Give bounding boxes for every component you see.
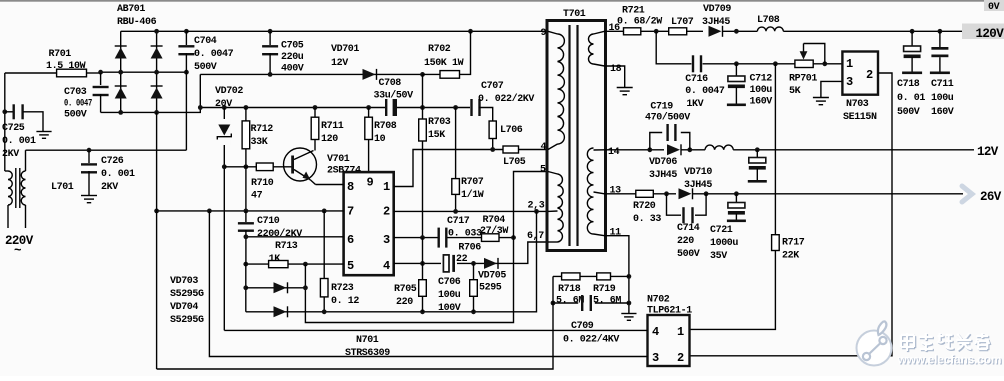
svg-text:6,7: 6,7 xyxy=(527,231,544,242)
inductor L707 xyxy=(669,28,687,35)
ground for C725 xyxy=(36,131,51,133)
wire opto pin4 from VD702 column xyxy=(224,329,647,331)
node L706 bottom on pin1 wire xyxy=(490,147,495,152)
node C705 top xyxy=(268,29,273,34)
capacitor C704 xyxy=(185,31,187,45)
svg-text:5. 6M: 5. 6M xyxy=(593,295,621,306)
wire AC left vertical xyxy=(4,73,6,171)
svg-text:2: 2 xyxy=(383,205,390,219)
nodes C719 ends xyxy=(647,147,692,152)
resistor R721 xyxy=(624,28,641,35)
svg-text:VD710: VD710 xyxy=(684,167,712,178)
wire primary negative column xyxy=(156,112,158,369)
resistor R710 xyxy=(224,166,292,168)
resistor R719 xyxy=(597,273,611,280)
svg-text:VD702: VD702 xyxy=(215,86,243,97)
svg-text:VD704: VD704 xyxy=(170,302,198,313)
zener diode VD702 xyxy=(218,119,231,145)
svg-text:35V: 35V xyxy=(710,251,727,262)
resistor R702 xyxy=(423,31,471,74)
svg-text:0. 0047: 0. 0047 xyxy=(194,49,234,60)
svg-text:R704: R704 xyxy=(483,215,506,226)
resistor R718 xyxy=(553,275,629,277)
wire IC pin 5 net xyxy=(246,263,344,265)
wire opto pin3 from pin7 net xyxy=(209,211,647,357)
svg-text:47: 47 xyxy=(251,191,263,202)
capacitor C712 xyxy=(735,64,737,76)
junctions on bottom rail xyxy=(118,110,159,115)
svg-text:26V: 26V xyxy=(980,190,1002,204)
wire aux rail left part xyxy=(200,107,385,109)
svg-text:R719: R719 xyxy=(593,284,616,295)
svg-text:120V: 120V xyxy=(976,27,1004,41)
wire AC1 rail xyxy=(101,71,187,73)
capacitor C721 xyxy=(735,194,737,203)
wire C707 to L706 xyxy=(479,108,493,122)
svg-text:C725: C725 xyxy=(2,123,25,134)
resistor R707 xyxy=(455,108,457,212)
svg-text:500V: 500V xyxy=(897,107,920,118)
op-amp U2 regulator N703 SE115N box xyxy=(842,52,878,95)
resistor R712 xyxy=(245,108,247,211)
node R706 top xyxy=(471,261,476,266)
svg-text:T701: T701 xyxy=(563,9,586,20)
resistor R711 xyxy=(314,108,316,151)
capacitor C718 xyxy=(911,31,913,46)
svg-text:R701: R701 xyxy=(49,49,72,60)
decor grey corner xyxy=(0,0,1004,2)
svg-text:7: 7 xyxy=(347,205,354,219)
junctions on aux rail xyxy=(198,105,458,110)
svg-text:2: 2 xyxy=(677,351,684,365)
node C714 right and C721 top xyxy=(704,191,739,196)
svg-text:R706: R706 xyxy=(458,243,481,254)
svg-text:0. 001: 0. 001 xyxy=(101,169,135,180)
node VD702 bottom on R710 wire xyxy=(222,164,227,169)
svg-text:4: 4 xyxy=(652,325,659,339)
ground for N703 pin3 xyxy=(813,97,829,99)
node C716 branch xyxy=(654,29,659,34)
diode bridge upper-left xyxy=(115,48,127,59)
transformer T701 core box xyxy=(547,21,606,251)
svg-text:L707: L707 xyxy=(671,17,694,28)
svg-text:R723: R723 xyxy=(331,283,354,294)
inductor L709 filter coil xyxy=(705,145,733,150)
svg-text:500V: 500V xyxy=(677,249,700,260)
svg-text:100u: 100u xyxy=(931,93,954,104)
node R704 right to pin5 branch xyxy=(511,235,516,240)
wire IC pin 3 snubber left xyxy=(394,237,438,239)
wire aux rail right part xyxy=(395,107,470,109)
arrow 26V output xyxy=(962,186,972,202)
svg-text:C717: C717 xyxy=(447,216,470,227)
svg-text:500V: 500V xyxy=(64,110,87,121)
svg-text:2,3: 2,3 xyxy=(528,200,545,211)
diode VD706 xyxy=(667,144,680,155)
svg-text:L701: L701 xyxy=(51,182,74,193)
nodes C718 C711 top xyxy=(910,29,943,34)
wire AC line top to R701 xyxy=(5,72,57,74)
ground for pin 18 xyxy=(617,87,633,89)
svg-text:C705: C705 xyxy=(281,41,304,52)
svg-text:C712: C712 xyxy=(750,74,773,85)
svg-text:L708: L708 xyxy=(757,15,780,26)
capacitor C714 xyxy=(667,194,682,215)
wire pin13 26V rail xyxy=(605,193,636,195)
wire pin5 to snubber link xyxy=(305,172,548,323)
svg-text:R705: R705 xyxy=(394,284,417,295)
transistor V701 2SB774 xyxy=(284,148,317,181)
svg-text:RP701: RP701 xyxy=(789,74,817,85)
wire L708 to 120V output xyxy=(783,30,974,32)
node R705 top xyxy=(420,261,425,266)
svg-text:160V: 160V xyxy=(750,97,773,108)
svg-text:27/3W: 27/3W xyxy=(480,225,508,237)
svg-text:VD709: VD709 xyxy=(703,4,731,15)
junctions on pin7 wire xyxy=(154,209,326,214)
resistor R713 xyxy=(269,261,288,268)
capacitor C709 xyxy=(553,302,578,304)
resistor R717 xyxy=(774,64,776,235)
svg-text:9: 9 xyxy=(367,176,374,190)
diode bridge lower-right xyxy=(151,88,163,99)
diode VD703 xyxy=(246,287,306,289)
node C725 left junction xyxy=(2,109,7,114)
svg-text:100u: 100u xyxy=(438,290,461,301)
svg-text:6: 6 xyxy=(347,233,354,247)
wire bridge bottom rail xyxy=(101,74,201,112)
diode VD704 xyxy=(246,211,537,311)
node VD703 cathode junction xyxy=(303,285,308,290)
wire IC pin 8 to V701 emitter xyxy=(316,184,344,186)
wire L707 to VD709 xyxy=(687,30,703,32)
diode bridge lower-left xyxy=(115,88,127,99)
node R703 bottom on pin3 wire xyxy=(420,235,425,240)
capacitor C713 filter xyxy=(756,150,758,158)
svg-text:R710: R710 xyxy=(251,178,274,189)
svg-text:4: 4 xyxy=(383,259,390,273)
wire C716 branch xyxy=(656,31,691,64)
svg-text:SE115N: SE115N xyxy=(843,112,877,123)
opto-coupler N702 TLP621-1 box xyxy=(648,315,690,366)
wire IC pin 7 ground net xyxy=(157,210,344,212)
svg-text:14: 14 xyxy=(608,147,620,158)
node C705 bottom xyxy=(268,72,273,77)
node VD703 anode xyxy=(243,285,248,290)
diode VD705 xyxy=(484,258,497,269)
svg-text:2200/2KV: 2200/2KV xyxy=(257,228,302,240)
transformer primary winding 5-2,3-6,7 xyxy=(558,174,564,242)
svg-text:R721: R721 xyxy=(622,6,645,17)
node C714 left xyxy=(664,191,669,196)
svg-text:2KV: 2KV xyxy=(101,182,118,193)
svg-text:R717: R717 xyxy=(782,238,805,249)
resistor R705 xyxy=(422,238,424,312)
wire IC pin 3 snubber right xyxy=(447,237,514,239)
wire VD709 to L708 xyxy=(723,30,758,32)
svg-text:0. 022/2KV: 0. 022/2KV xyxy=(478,93,534,105)
wire IC pin 1 to transformer pin 4 xyxy=(394,150,548,187)
node R707 bottom xyxy=(453,209,458,214)
svg-text:S5295G: S5295G xyxy=(170,315,204,326)
svg-text:500V: 500V xyxy=(194,62,217,73)
svg-text:220u: 220u xyxy=(281,52,304,63)
svg-text:C716: C716 xyxy=(685,74,708,85)
svg-text:L706: L706 xyxy=(500,125,523,136)
svg-text:1.5 10W: 1.5 10W xyxy=(46,61,86,72)
svg-text:C714: C714 xyxy=(677,223,700,234)
svg-text:C711: C711 xyxy=(931,79,954,90)
svg-text:0. 68/2W: 0. 68/2W xyxy=(617,16,662,28)
svg-text:4: 4 xyxy=(541,142,547,153)
svg-text:11: 11 xyxy=(610,228,622,239)
svg-text:S5295G: S5295G xyxy=(170,289,204,300)
svg-text:VD706: VD706 xyxy=(649,157,677,168)
resistor R708 xyxy=(368,108,370,173)
node DC+ rail to C708 branch xyxy=(420,72,425,77)
svg-text:N703: N703 xyxy=(846,99,869,110)
svg-text:C706: C706 xyxy=(438,277,461,288)
diode VD710 xyxy=(679,188,692,199)
wire pin11 down xyxy=(605,236,629,313)
svg-text:C708: C708 xyxy=(379,78,402,89)
svg-text:VD703: VD703 xyxy=(170,276,198,287)
wire VD702 column down to opto pin4 wire xyxy=(223,108,225,331)
svg-text:3JH45: 3JH45 xyxy=(702,17,730,28)
svg-text:TLP621-1: TLP621-1 xyxy=(647,306,692,317)
junctions on AC1 rail xyxy=(98,70,189,75)
svg-text:5K: 5K xyxy=(789,86,801,97)
svg-text:8: 8 xyxy=(347,180,354,194)
capacitor C725 xyxy=(5,111,13,113)
transformer primary winding 9-4 xyxy=(558,34,565,144)
svg-text:C707: C707 xyxy=(481,81,504,92)
wire clamp wire right xyxy=(457,242,548,263)
svg-text:C721: C721 xyxy=(710,225,733,236)
svg-text:3: 3 xyxy=(846,75,853,89)
wire bridge right column top xyxy=(156,31,158,112)
capacitor C707 xyxy=(470,99,472,116)
svg-text:0. 022/4KV: 0. 022/4KV xyxy=(563,334,619,346)
svg-text:1K: 1K xyxy=(269,254,281,265)
svg-text:3JH45: 3JH45 xyxy=(649,170,677,181)
svg-text:22: 22 xyxy=(456,254,468,265)
capacitor C703 xyxy=(100,73,102,85)
svg-text:5. 6M: 5. 6M xyxy=(556,295,584,306)
svg-text:C718: C718 xyxy=(897,79,920,90)
svg-text:2KV: 2KV xyxy=(2,149,19,160)
ground for C709 right xyxy=(621,313,636,315)
wire pin14 12V rail xyxy=(605,149,665,151)
svg-text:150K 1W: 150K 1W xyxy=(424,58,464,69)
svg-text:R713: R713 xyxy=(275,241,298,252)
junctions on pin5 wire xyxy=(243,262,307,267)
capacitor C705 xyxy=(269,31,271,45)
svg-text:C726: C726 xyxy=(101,156,124,167)
wire C716 to RP701 and N703 xyxy=(703,63,843,65)
svg-text:15K: 15K xyxy=(428,130,445,141)
svg-text:1000u: 1000u xyxy=(710,238,738,249)
capacitor C717 xyxy=(438,228,440,248)
wire R721 to L707 xyxy=(641,30,669,32)
capacitor C710 xyxy=(245,211,247,222)
svg-text:5: 5 xyxy=(540,165,546,176)
wire pin18 to ground xyxy=(605,66,625,87)
svg-text:33u/50V: 33u/50V xyxy=(374,90,414,102)
resistor R703 xyxy=(422,74,424,237)
svg-text:9: 9 xyxy=(541,28,547,39)
resistor R720 xyxy=(636,190,654,197)
svg-text:VD705: VD705 xyxy=(478,271,506,282)
svg-text:10: 10 xyxy=(374,134,386,145)
svg-text:13: 13 xyxy=(610,186,622,197)
wire coil to 12V output xyxy=(733,149,974,151)
wire IC pin 4 clamp wire xyxy=(394,262,441,264)
svg-text:22K: 22K xyxy=(782,251,799,262)
node pin6 junction on C710 column xyxy=(244,234,249,239)
svg-text:100u: 100u xyxy=(750,85,773,96)
inductor L706 xyxy=(489,121,496,139)
svg-text:5295: 5295 xyxy=(479,283,502,294)
inductor L701 common-mode choke xyxy=(8,171,12,205)
capacitor C706 xyxy=(443,255,449,272)
resistor R706 body xyxy=(473,263,475,311)
capacitor C708 xyxy=(385,99,387,116)
svg-text:0. 033: 0. 033 xyxy=(448,229,482,240)
diode bridge upper-right xyxy=(151,48,163,59)
transformer secondary winding 16-18 xyxy=(589,34,594,64)
inductor L705 xyxy=(503,146,519,153)
wire VD703 row xyxy=(245,264,247,312)
label 120V output xyxy=(962,24,1004,40)
wire C709 left to primary return xyxy=(157,276,553,369)
svg-text:220: 220 xyxy=(677,236,694,247)
svg-text:1: 1 xyxy=(677,325,684,339)
svg-text:0. 33: 0. 33 xyxy=(633,214,661,225)
diode VD701 zener xyxy=(363,69,376,80)
wire VD710 to 26V output xyxy=(693,193,964,195)
wire DC+ rail xyxy=(200,73,422,75)
svg-text:RBU-406: RBU-406 xyxy=(117,17,157,28)
svg-text:V701: V701 xyxy=(327,154,350,165)
svg-text:0. 12: 0. 12 xyxy=(331,296,359,307)
svg-text:R708: R708 xyxy=(374,121,397,132)
wire top rail to transformer pin 9 xyxy=(186,30,548,32)
svg-text:R702: R702 xyxy=(428,44,451,55)
svg-text:N702: N702 xyxy=(647,295,670,306)
svg-text:C719: C719 xyxy=(650,102,673,113)
svg-text:R703: R703 xyxy=(428,117,451,128)
junctions on pin11 column xyxy=(627,274,632,305)
transformer secondary winding 14-13-11 xyxy=(587,148,593,234)
svg-text:0. 0047: 0. 0047 xyxy=(685,86,725,97)
svg-text:12V: 12V xyxy=(331,58,348,69)
diode VD709 xyxy=(709,26,722,37)
svg-text:R712: R712 xyxy=(251,124,274,135)
svg-text:R718: R718 xyxy=(558,284,581,295)
svg-text:3: 3 xyxy=(652,351,659,365)
svg-text:~: ~ xyxy=(14,244,21,258)
node C709 left junction xyxy=(551,301,556,306)
capacitor C716 xyxy=(692,55,694,72)
svg-text:12V: 12V xyxy=(977,145,999,159)
wire AC2 from L701 to bridge xyxy=(26,149,187,151)
svg-text:0. 01: 0. 01 xyxy=(897,93,925,104)
potentiometer RP701 xyxy=(795,60,813,67)
junctions on top rail xyxy=(154,29,189,34)
wire pin16 to R721 xyxy=(605,30,624,32)
junctions on regulator wire xyxy=(734,61,827,66)
svg-text:C710: C710 xyxy=(257,216,280,227)
capacitor C719 xyxy=(650,133,662,150)
svg-text:5: 5 xyxy=(347,259,354,273)
wire N703 pin2 feedback xyxy=(690,73,893,356)
resistor R701 xyxy=(57,69,87,77)
svg-text:3JH45: 3JH45 xyxy=(684,180,712,191)
svg-text:1/1W: 1/1W xyxy=(461,189,484,201)
inductor L708 xyxy=(757,27,783,31)
resistor R704 xyxy=(482,234,500,242)
node C713 top xyxy=(755,147,760,152)
capacitor C711 xyxy=(939,31,941,47)
capacitor C726 xyxy=(88,150,90,163)
ground for C726 xyxy=(81,195,97,197)
svg-text:L705: L705 xyxy=(503,157,526,168)
wire bridge top rail xyxy=(121,30,187,32)
svg-text:R720: R720 xyxy=(633,201,656,212)
wire N703 pin3 to ground xyxy=(821,81,843,97)
svg-text:160V: 160V xyxy=(931,107,954,118)
svg-text:AB701: AB701 xyxy=(117,4,145,15)
op-amp U1 regulator IC N701 STRS6309 box xyxy=(344,172,394,275)
svg-text:0. 0047: 0. 0047 xyxy=(64,99,92,110)
svg-text:VD701: VD701 xyxy=(331,44,359,55)
watermark elecfans logo xyxy=(857,331,892,366)
svg-text:www.elecfans.com: www.elecfans.com xyxy=(897,352,1002,366)
svg-text:120: 120 xyxy=(321,134,338,145)
svg-text:R707: R707 xyxy=(461,177,484,188)
svg-text:2: 2 xyxy=(866,68,873,82)
svg-text:470/500V: 470/500V xyxy=(645,112,690,124)
svg-text:400V: 400V xyxy=(281,64,304,75)
svg-text:C704: C704 xyxy=(194,36,217,47)
wire bridge left column xyxy=(120,31,122,112)
svg-text:1KV: 1KV xyxy=(686,99,703,110)
wire IC pin 6 to C710 xyxy=(246,236,344,238)
wire VD706 to coil xyxy=(681,149,705,151)
node R712 bottom xyxy=(244,164,249,169)
junctions on emitter rail xyxy=(322,309,476,314)
node C712 branch top xyxy=(734,29,739,34)
svg-text:33K: 33K xyxy=(251,137,268,148)
resistor R723 xyxy=(323,211,325,312)
wire R701 to C703 node xyxy=(87,72,101,74)
svg-text:220: 220 xyxy=(396,297,413,308)
svg-text:STRS6309: STRS6309 xyxy=(345,348,390,359)
svg-text:N701: N701 xyxy=(356,335,379,346)
wire IC pin 2 to transformer pins 2,3 xyxy=(394,210,548,212)
wire R720 to VD710 xyxy=(653,193,676,195)
node R702 top xyxy=(468,29,473,34)
svg-text:1: 1 xyxy=(846,57,853,71)
svg-text:0V: 0V xyxy=(988,2,1000,13)
svg-text:C703: C703 xyxy=(64,87,87,98)
node C726 top xyxy=(87,148,92,153)
svg-text:0. 001: 0. 001 xyxy=(2,136,36,147)
node 2,3 branch xyxy=(534,209,539,214)
svg-text:1: 1 xyxy=(383,180,390,194)
svg-text:3: 3 xyxy=(383,233,390,247)
